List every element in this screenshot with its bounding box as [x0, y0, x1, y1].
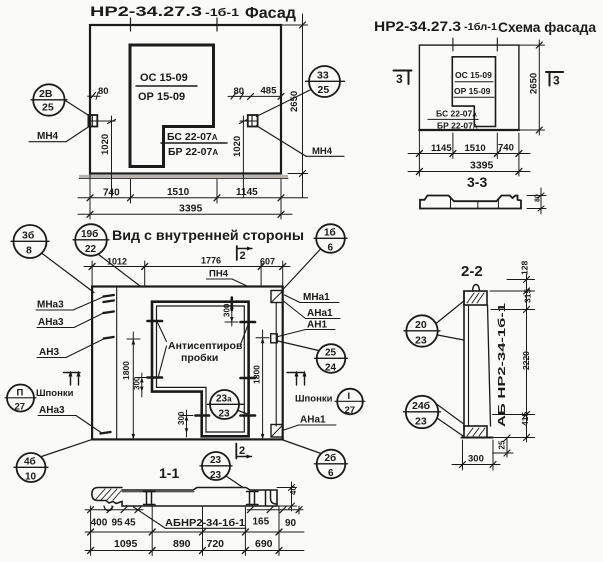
label AH1 right — [307, 320, 327, 331]
plug left edge upper — [148, 320, 163, 323]
svg-text:300: 300 — [468, 454, 484, 465]
svg-text:ОР 15-09: ОР 15-09 — [138, 91, 185, 103]
svg-text:400: 400 — [91, 518, 108, 529]
svg-text:3-3: 3-3 — [467, 174, 487, 190]
label MHa3 — [37, 300, 64, 311]
svg-text:80: 80 — [535, 194, 542, 202]
svg-text:НР2-34.27.3: НР2-34.27.3 — [374, 19, 462, 34]
svg-text:1095: 1095 — [114, 538, 138, 550]
svg-text:Схема фасада: Схема фасада — [498, 19, 596, 35]
svg-text:740: 740 — [103, 188, 120, 199]
svg-text:-1бл-1: -1бл-1 — [464, 21, 497, 33]
svg-text:НР2-34.27.3: НР2-34.27.3 — [90, 3, 202, 19]
svg-text:4б: 4б — [24, 456, 36, 468]
inner view outer rectangle — [92, 287, 283, 440]
facade bottom dim row 740/1510/1145 — [89, 174, 91, 204]
label 2-2 — [461, 263, 483, 280]
vertical label AB HP2-34-1b-1 — [496, 303, 508, 427]
svg-text:23: 23 — [219, 409, 231, 420]
dim 300 step — [186, 410, 188, 437]
svg-text:АБНР2-34-1б-1: АБНР2-34-1б-1 — [165, 517, 245, 529]
svg-text:8: 8 — [26, 245, 32, 257]
svg-text:2: 2 — [240, 250, 246, 262]
svg-text:25: 25 — [498, 440, 507, 449]
schema text OC/OP — [454, 70, 492, 96]
svg-text:23а: 23а — [216, 394, 232, 405]
label shponki left — [36, 388, 74, 399]
svg-text:1510: 1510 — [167, 187, 190, 198]
svg-text:АНа3: АНа3 — [38, 317, 64, 328]
callout circle 2b/6 — [317, 450, 346, 479]
svg-text:1020: 1020 — [232, 136, 243, 157]
svg-text:1145: 1145 — [236, 187, 258, 198]
extension verticals 1-1 — [90, 506, 92, 556]
label AHa1 bottom right — [300, 415, 326, 426]
dim numbers row 2 — [114, 538, 273, 550]
connector dashes on left edge — [104, 295, 114, 297]
leaders 24b/23 to bottom plate — [437, 404, 464, 424]
svg-text:-1б-1: -1б-1 — [205, 7, 239, 19]
svg-text:23: 23 — [415, 335, 427, 347]
callout circle 33/25 — [309, 66, 340, 97]
dim 2650 schema right — [519, 44, 545, 46]
svg-text:22: 22 — [85, 244, 97, 255]
svg-text:Антисептиров: Антисептиров — [168, 340, 243, 352]
svg-text:720: 720 — [207, 538, 225, 550]
clip AH1 mid-right — [271, 334, 278, 343]
callout circle 1b/6 — [316, 224, 345, 253]
svg-text:2650: 2650 — [529, 73, 540, 94]
top bracket with anchor loop — [464, 291, 487, 305]
dim 40 right of section — [277, 487, 297, 489]
svg-text:1510: 1510 — [465, 143, 486, 154]
svg-text:1800: 1800 — [252, 365, 262, 384]
plug right edge lower — [241, 414, 256, 417]
svg-text:ПН4: ПН4 — [209, 269, 229, 280]
svg-text:300: 300 — [222, 303, 231, 317]
dim 1020 left (vertical) — [111, 116, 113, 198]
svg-text:МНа3: МНа3 — [37, 300, 64, 311]
svg-text:19б: 19б — [81, 228, 98, 240]
svg-text:300: 300 — [177, 411, 186, 425]
svg-text:ОС 15-09: ОС 15-09 — [140, 72, 188, 84]
svg-text:3: 3 — [553, 74, 560, 88]
callout circle 23a/23 — [210, 390, 239, 419]
small hook under cap — [104, 506, 112, 511]
svg-text:1012: 1012 — [107, 257, 127, 267]
dim ticks horizontal — [507, 279, 535, 281]
svg-text:90: 90 — [285, 518, 297, 529]
callout circle 19b/22 — [75, 224, 107, 256]
leader circle 33/25 to right connector — [256, 90, 311, 117]
svg-text:1800: 1800 — [121, 361, 131, 380]
svg-text:1145: 1145 — [431, 143, 452, 154]
svg-text:23: 23 — [415, 416, 427, 428]
facade bottom dim row 3395 — [89, 203, 91, 219]
dim 1020 right (vertical) — [242, 116, 244, 198]
svg-text:пробки: пробки — [181, 352, 218, 364]
svg-text:23: 23 — [210, 455, 222, 466]
inner vertical line left — [116, 287, 118, 440]
svg-text:890: 890 — [173, 538, 191, 550]
svg-text:40: 40 — [289, 486, 298, 495]
label shponki right — [295, 394, 333, 405]
opening marking text OC 15-09 / OP 15-09 — [138, 72, 188, 103]
label AHa3 bottom — [39, 405, 65, 416]
title inner view — [112, 227, 304, 243]
svg-text:45: 45 — [125, 518, 137, 529]
title facade — [90, 3, 296, 22]
label AH3 — [39, 347, 59, 358]
svg-text:2650: 2650 — [289, 91, 300, 112]
schema top ticks — [452, 38, 454, 51]
callout circle 3b/8 — [14, 225, 47, 258]
svg-text:1776: 1776 — [201, 256, 221, 266]
svg-text:607: 607 — [260, 257, 275, 267]
mini dim line left 400/95/45 — [85, 509, 143, 511]
callout circle 4b/10 — [17, 453, 46, 482]
svg-text:10: 10 — [25, 472, 37, 483]
schema bottom dims 1145/1510/740 — [418, 130, 420, 159]
callout circle 23/23 — [202, 452, 230, 480]
svg-text:3395: 3395 — [179, 203, 203, 215]
schema panel bottom edge thick — [419, 129, 519, 131]
plug right edge middle — [241, 377, 256, 380]
leaders antiseptic to plugs — [158, 323, 167, 342]
svg-text:1б: 1б — [324, 227, 336, 239]
svg-text:128: 128 — [520, 261, 530, 275]
leaders 20/23 to column top — [436, 301, 464, 324]
callout circle 2B/25 — [33, 84, 64, 115]
opening inner outline — [157, 306, 245, 432]
leader circle 2B/25 to left connector — [65, 100, 91, 117]
svg-text:315: 315 — [523, 289, 533, 303]
callout circle 25/24 — [317, 344, 346, 373]
inner vertical line right — [275, 303, 277, 426]
callout circle 24b/23 — [406, 396, 438, 428]
leader MH4 left to connector — [66, 126, 90, 142]
svg-text:БР 22-07А: БР 22-07А — [168, 146, 218, 158]
dim 300 top plug — [231, 310, 233, 326]
section marker 3 right — [546, 71, 563, 73]
facade window opening (L-shape) — [130, 45, 214, 167]
top dim row 1012/1776/607 — [91, 261, 93, 287]
svg-text:6: 6 — [328, 243, 334, 254]
svg-text:25: 25 — [325, 348, 337, 359]
svg-text:2-2: 2-2 — [461, 263, 483, 280]
label MH4 left — [37, 131, 59, 142]
column body left edge double — [463, 291, 465, 430]
channel profile right — [247, 492, 259, 505]
marking text BC 22-07A / BP 22-07A — [167, 131, 218, 158]
label MHa1 right — [303, 292, 330, 303]
svg-text:АН1: АН1 — [307, 320, 327, 331]
svg-text:25: 25 — [42, 102, 54, 114]
svg-text:I: I — [348, 391, 351, 402]
svg-text:165: 165 — [253, 517, 270, 528]
facade top edge ticks — [130, 18, 132, 31]
svg-text:20: 20 — [415, 319, 427, 331]
bracket bottom-right AHa1 — [271, 425, 283, 438]
svg-text:27: 27 — [15, 402, 26, 413]
section 3-3 label — [467, 174, 487, 190]
connector MH4 right (square on right edge) — [248, 115, 258, 127]
dim 1800 left — [132, 332, 134, 439]
svg-text:1-1: 1-1 — [159, 465, 179, 481]
section marker 2 top — [236, 246, 238, 260]
dim line B y=550.5 — [85, 550, 304, 552]
dim 300 bottom — [462, 440, 464, 470]
svg-text:Вид с внутренней стороны: Вид с внутренней стороны — [112, 227, 304, 243]
svg-text:БС 22-07А: БС 22-07А — [167, 131, 218, 143]
svg-text:П: П — [17, 388, 24, 399]
svg-text:2220: 2220 — [521, 351, 531, 370]
callout circle 20/23 — [406, 315, 437, 346]
right end piece with notch — [266, 491, 277, 506]
svg-text:БС 22-07А: БС 22-07А — [436, 109, 477, 119]
section 1-1 bar top/bottom lines — [122, 488, 277, 507]
svg-text:БР 22-07А: БР 22-07А — [437, 121, 478, 131]
label antiseptic plugs — [168, 340, 243, 364]
opening outer outline (L-shape, viewed from inside) — [152, 302, 249, 437]
leader MH4 right to connector — [256, 126, 306, 157]
svg-text:415: 415 — [520, 412, 530, 426]
svg-text:23: 23 — [210, 470, 222, 481]
plug top edge — [231, 298, 234, 311]
plug step edge — [196, 414, 210, 417]
svg-text:3б: 3б — [22, 230, 35, 242]
bottom plate — [464, 426, 487, 438]
svg-text:3: 3 — [396, 72, 403, 86]
svg-text:24: 24 — [325, 363, 337, 374]
bracket top-right MHa1 — [271, 291, 283, 303]
label 1-1 — [159, 465, 179, 481]
facade bottom grey strip — [79, 175, 288, 179]
svg-text:МН4: МН4 — [312, 146, 333, 157]
label AHa1 right — [307, 308, 333, 319]
dim line right of column — [526, 274, 528, 442]
label AB HP2-34-1b-1 — [165, 517, 245, 529]
svg-text:АНа1: АНа1 — [300, 415, 326, 426]
dim 80 left top — [98, 86, 109, 97]
svg-text:27: 27 — [345, 405, 356, 416]
dim line A y=532 — [85, 531, 304, 533]
svg-text:МНа1: МНа1 — [303, 292, 330, 303]
svg-text:25: 25 — [318, 84, 330, 96]
mini dim line right 165/90 — [247, 509, 303, 511]
svg-text:Шпонки: Шпонки — [36, 388, 74, 399]
svg-text:2б: 2б — [325, 452, 337, 464]
svg-text:485: 485 — [261, 86, 278, 97]
section marker 3 left — [394, 70, 412, 72]
schema opening (L-shape) — [452, 57, 495, 127]
dim 2650 facade right — [281, 24, 308, 26]
dim 1800 right — [262, 330, 264, 439]
svg-text:Фасад: Фасад — [245, 5, 296, 22]
section 3-3 small dims — [527, 195, 546, 197]
svg-text:80: 80 — [98, 86, 109, 97]
svg-text:2: 2 — [239, 445, 245, 457]
svg-text:3395: 3395 — [470, 160, 494, 172]
plug left edge lower — [148, 376, 163, 379]
svg-text:6: 6 — [328, 468, 334, 479]
svg-text:Шпонки: Шпонки — [295, 394, 333, 405]
section 1-1 left hatched cap — [92, 488, 122, 507]
dim texts 128/315/2220/415 — [520, 261, 533, 426]
section marker 2 bottom — [235, 444, 237, 459]
svg-text:АН3: АН3 — [39, 347, 59, 358]
channel profile left — [144, 492, 156, 505]
svg-text:24б: 24б — [412, 400, 431, 412]
schema bottom dim 3395 — [418, 159, 420, 177]
svg-text:2В: 2В — [39, 88, 53, 100]
svg-text:АНа3: АНа3 — [39, 405, 65, 416]
shponki arrows right — [287, 372, 304, 374]
label MH4 right — [312, 146, 333, 157]
svg-text:АНа1: АНа1 — [307, 308, 333, 319]
title schema — [374, 19, 596, 35]
dim 80 right top — [234, 86, 245, 97]
svg-text:690: 690 — [255, 538, 273, 550]
svg-text:МН4: МН4 — [37, 131, 59, 142]
callout circle P/27 — [7, 385, 34, 412]
connector MH4 left (square on left edge) — [88, 115, 97, 127]
facade outer panel rectangle — [90, 25, 281, 174]
svg-text:33: 33 — [317, 70, 329, 82]
schema outer rectangle — [419, 45, 519, 130]
svg-text:ОС 15-09: ОС 15-09 — [455, 70, 492, 80]
dim 25 bottom — [506, 438, 508, 457]
label AHa3 — [38, 317, 64, 328]
svg-text:1020: 1020 — [100, 134, 111, 155]
schema text BC/BP — [436, 109, 478, 131]
plug right edge upper — [241, 321, 256, 324]
dim 485 right top — [261, 86, 278, 97]
callout circle 1/27 — [337, 389, 363, 415]
shponki arrows left — [64, 372, 81, 374]
svg-text:740: 740 — [498, 143, 514, 154]
svg-text:ОР 15-09: ОР 15-09 — [454, 86, 491, 96]
dim 300 left lower — [141, 373, 143, 397]
label PN4 — [209, 269, 229, 280]
section 3-3 profile — [420, 196, 521, 209]
svg-text:АБ НР2-34-1б-1: АБ НР2-34-1б-1 — [496, 303, 508, 427]
svg-text:95: 95 — [112, 518, 124, 529]
column right edge — [488, 305, 491, 426]
